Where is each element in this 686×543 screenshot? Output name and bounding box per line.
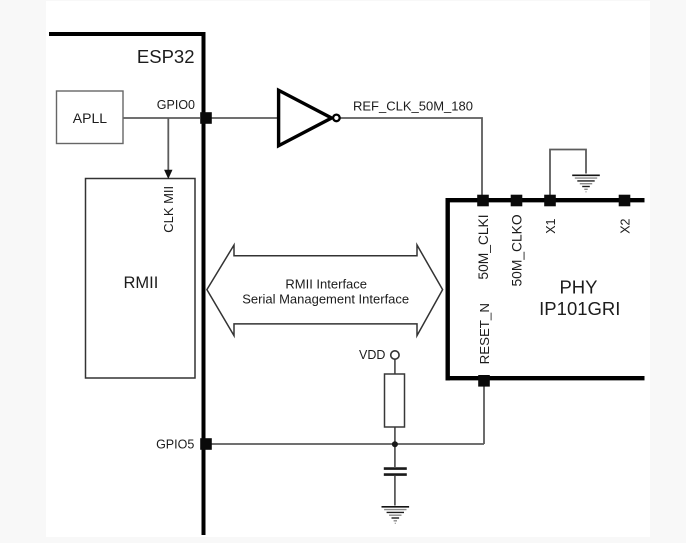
svg-text:PHY: PHY bbox=[559, 276, 597, 297]
svg-text:X2: X2 bbox=[618, 218, 632, 233]
svg-text:GPIO0: GPIO0 bbox=[157, 98, 195, 112]
svg-text:RMII Interface: RMII Interface bbox=[285, 276, 367, 291]
svg-text:Serial Management Interface: Serial Management Interface bbox=[242, 292, 409, 307]
svg-text:CLK MII: CLK MII bbox=[161, 186, 176, 233]
svg-text:50M_CLKI: 50M_CLKI bbox=[476, 214, 491, 279]
svg-text:IP101GRI: IP101GRI bbox=[539, 298, 620, 319]
svg-text:RMII: RMII bbox=[123, 274, 158, 292]
svg-text:GPIO5: GPIO5 bbox=[156, 437, 194, 451]
svg-text:RESET_N: RESET_N bbox=[477, 303, 492, 364]
svg-text:50M_CLKO: 50M_CLKO bbox=[510, 214, 525, 286]
svg-text:REF_CLK_50M_180: REF_CLK_50M_180 bbox=[353, 99, 473, 114]
svg-text:VDD: VDD bbox=[359, 348, 385, 362]
svg-text:X1: X1 bbox=[544, 218, 558, 233]
svg-text:ESP32: ESP32 bbox=[137, 46, 195, 67]
svg-text:APLL: APLL bbox=[73, 110, 107, 126]
